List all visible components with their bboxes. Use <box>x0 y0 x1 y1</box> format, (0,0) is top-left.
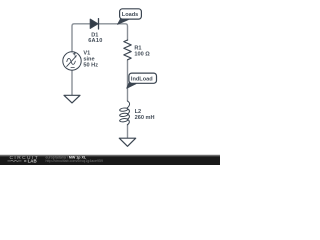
svg-text:≈ LAB: ≈ LAB <box>24 159 37 164</box>
svg-text:IndLoad: IndLoad <box>131 76 153 82</box>
svg-text:http://circuitlab.com/c/rcq1g4: http://circuitlab.com/c/rcq1g4ace959 <box>46 159 104 163</box>
svg-text:260 mH: 260 mH <box>135 115 155 121</box>
svg-text:100 Ω: 100 Ω <box>134 51 150 57</box>
svg-text:Loads: Loads <box>122 12 138 18</box>
svg-text:50 Hz: 50 Hz <box>83 62 98 68</box>
svg-text:6A10: 6A10 <box>88 38 102 44</box>
